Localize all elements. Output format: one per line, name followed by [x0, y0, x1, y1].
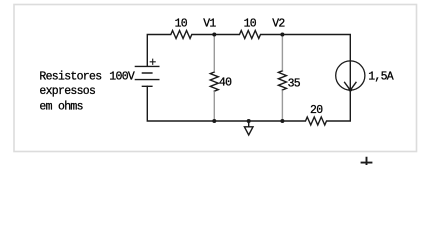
- svg-text:Resistores: Resistores: [39, 70, 101, 83]
- svg-text:1,5A: 1,5A: [368, 71, 394, 84]
- svg-text:35: 35: [288, 77, 301, 90]
- svg-text:10: 10: [175, 18, 188, 31]
- svg-text:10: 10: [244, 18, 257, 31]
- svg-text:20: 20: [310, 104, 323, 117]
- svg-text:V1: V1: [203, 18, 216, 31]
- svg-text:V2: V2: [272, 18, 285, 31]
- svg-text:em ohms: em ohms: [39, 100, 82, 113]
- svg-text:40: 40: [219, 76, 232, 89]
- svg-text:100V: 100V: [109, 70, 135, 83]
- svg-text:expressos: expressos: [39, 85, 95, 98]
